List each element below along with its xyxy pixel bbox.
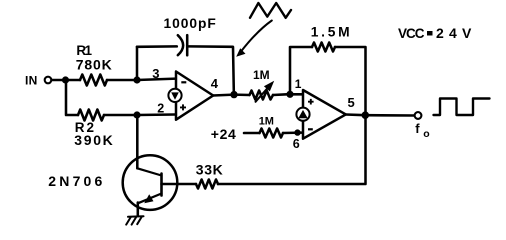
wire R2 to pin2 junction xyxy=(104,114,134,117)
wire op2 output xyxy=(346,113,366,116)
resistor 1.5M xyxy=(312,43,335,52)
wire +24 lead xyxy=(244,132,260,135)
label op2 plus xyxy=(308,99,314,105)
wire 1.5M loop left vertical xyxy=(290,47,312,94)
transistor Q1 2N706 circle xyxy=(123,155,178,210)
node op2 output junction xyxy=(362,111,370,119)
transistor base bar xyxy=(160,174,163,196)
wire 1M to op-amp pin 6 xyxy=(283,131,302,134)
pot wiper arrow xyxy=(256,88,269,102)
svg-text:33K: 33K xyxy=(196,161,223,177)
svg-text:3: 3 xyxy=(152,66,159,81)
emitter arrowhead xyxy=(144,194,153,203)
sawtooth waveform symbol xyxy=(250,3,291,18)
op-amp U2 triangle xyxy=(303,90,346,139)
node input junction xyxy=(62,76,69,83)
svg-text:390K: 390K xyxy=(74,132,113,148)
wire op1 output xyxy=(213,93,234,96)
node pin3 junction xyxy=(133,76,140,83)
label op1 minus xyxy=(181,81,186,83)
wire capacitor branch vertical xyxy=(136,47,139,80)
wire op1 output to pot xyxy=(234,93,250,96)
square wave symbol xyxy=(434,99,490,116)
ground xyxy=(126,216,143,224)
resistor 1M to pin 6 xyxy=(260,129,284,138)
svg-text:2: 2 xyxy=(157,101,164,115)
wire collector vertical xyxy=(136,115,139,168)
capacitor C1 1000pF curved plate xyxy=(178,35,183,55)
wire R1 left lead xyxy=(66,79,81,82)
svg-text:1.5M: 1.5M xyxy=(311,24,350,39)
wire R1 to pin3 junction xyxy=(107,79,134,82)
wire pin3 junction to op-amp pin 3 xyxy=(137,79,176,80)
svg-text:1000pF: 1000pF xyxy=(164,16,216,31)
svg-text:1: 1 xyxy=(295,77,302,91)
node pin2 junction xyxy=(133,111,140,118)
op-amp U1 current source circle xyxy=(168,89,181,102)
svg-text:2N706: 2N706 xyxy=(48,173,102,189)
wire pin1 junction to op-amp pin 1 xyxy=(290,93,303,96)
svg-text:1M: 1M xyxy=(259,116,274,128)
wire pin2 junction to op-amp pin 2 xyxy=(137,113,175,116)
wire IN down to R2 row xyxy=(66,80,78,115)
arrow from sawtooth to integrator output xyxy=(241,21,272,52)
svg-text:f: f xyxy=(415,121,420,136)
op-amp U2 current source circle xyxy=(296,108,309,121)
svg-text:o: o xyxy=(423,128,429,140)
wire IN to junction xyxy=(52,79,62,82)
node pin1 junction xyxy=(286,91,293,98)
node IN terminal xyxy=(45,77,52,84)
svg-text:IN: IN xyxy=(25,74,37,88)
svg-text:VCC: VCC xyxy=(398,26,425,41)
wire 33K to transistor base xyxy=(162,183,197,186)
wire 1.5M loop right xyxy=(335,47,366,112)
node output terminal fo xyxy=(415,112,422,119)
svg-text:+24: +24 xyxy=(211,126,236,142)
svg-text:6: 6 xyxy=(293,137,300,151)
wire emitter diagonal xyxy=(139,194,162,203)
label op2 minus xyxy=(308,128,313,130)
svg-text:780K: 780K xyxy=(76,56,112,72)
resistor R1 780K xyxy=(80,75,107,86)
op-amp U1 triangle xyxy=(176,72,213,120)
node op1 output junction xyxy=(230,91,237,98)
resistor 1M potentiometer xyxy=(250,91,274,100)
resistor 33K xyxy=(196,180,218,189)
wire op2 output to terminal xyxy=(365,114,414,117)
wire emitter vertical xyxy=(137,203,140,216)
node pin6 xyxy=(294,129,300,135)
label op1 plus xyxy=(180,104,186,110)
wire capacitor top right xyxy=(189,46,234,91)
svg-text:4: 4 xyxy=(211,76,219,91)
wire collector diagonal xyxy=(137,168,161,175)
wire pot to pin1 junction xyxy=(273,93,287,96)
resistor R2 390K xyxy=(78,110,104,121)
wire capacitor top left xyxy=(137,45,177,48)
svg-text:24V: 24V xyxy=(436,25,472,41)
wire feedback down from op2 output xyxy=(218,115,366,184)
svg-text:5: 5 xyxy=(348,95,355,110)
svg-text:1M: 1M xyxy=(253,68,270,82)
capacitor C1 1000pF straight plate xyxy=(186,35,189,55)
